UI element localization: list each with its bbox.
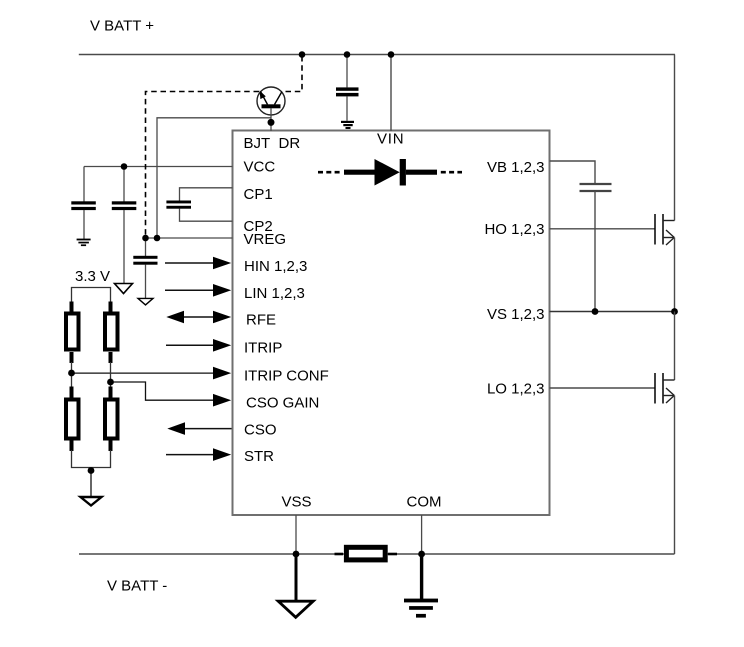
wire between R2 and R4 — [110, 362, 112, 388]
wire + arrow into ITRIP CONF from divider — [72, 367, 232, 380]
svg-text:V BATT -: V BATT - — [107, 578, 167, 595]
wire COM ground stub — [420, 554, 423, 599]
wire right-side vertical from rail to high-side FET drain — [674, 55, 676, 221]
resistor R3 — [66, 400, 79, 439]
resistor R2 — [105, 314, 118, 350]
arrow into LIN 1,2,3 — [165, 284, 231, 297]
wire C2 top lead — [123, 167, 125, 202]
double arrow RFE — [166, 311, 231, 324]
node junction VREG dashed — [142, 235, 149, 242]
capacitor C1 — [71, 201, 96, 210]
svg-text:RFE: RFE — [246, 312, 276, 329]
diode D1 at VIN (dashed left lead) — [318, 171, 341, 174]
svg-text:VSS: VSS — [281, 494, 311, 511]
node junction VSS on rail — [293, 551, 300, 558]
capacitor C5 on VIN rail — [336, 87, 359, 96]
svg-text:VREG: VREG — [244, 231, 287, 248]
resistor R2 bottom lead — [109, 352, 113, 363]
svg-text:CSO GAIN: CSO GAIN — [246, 395, 319, 412]
resistor R2 top lead — [109, 302, 113, 314]
wire C4 bottom lead — [145, 265, 147, 299]
wire VS node to Q3 drain — [674, 312, 676, 381]
node junction VS and bootstrap — [592, 308, 599, 315]
svg-text:ITRIP CONF: ITRIP CONF — [244, 368, 329, 385]
node junction divider ground — [88, 467, 95, 474]
capacitor C2 — [112, 201, 137, 210]
svg-text:COM: COM — [407, 494, 442, 511]
svg-text:3.3 V: 3.3 V — [75, 268, 110, 285]
transistor Q1 BJT — [257, 87, 285, 115]
svg-text:VIN: VIN — [377, 131, 404, 148]
svg-text:CSO: CSO — [244, 422, 277, 439]
svg-text:CP1: CP1 — [244, 186, 273, 203]
wire Q3 source down to bottom rail — [674, 396, 676, 555]
ground earth symbol below C5 — [341, 121, 354, 129]
diode D1 body — [344, 159, 437, 186]
wire C5 top lead from rail — [346, 55, 348, 88]
dashed wire from BJT emitter to VREG node — [146, 92, 260, 237]
ground triangle VSS — [278, 601, 313, 617]
wire VREG pin to left — [146, 237, 233, 239]
wire BJT base to IC BJT DR pin — [270, 108, 272, 131]
arrow into ITRIP — [166, 339, 231, 352]
node junction top rail dashed tap — [299, 51, 306, 58]
dashed wire from top rail to BJT collector — [284, 56, 302, 92]
wire VSS ground stub — [295, 554, 298, 601]
resistor R4 top lead — [109, 387, 113, 400]
node junction divider left tap — [68, 370, 75, 377]
wire C4 top lead — [145, 238, 147, 256]
svg-text:HIN 1,2,3: HIN 1,2,3 — [244, 258, 307, 275]
svg-text:LIN 1,2,3: LIN 1,2,3 — [244, 285, 305, 302]
capacitor C6 bootstrap — [580, 184, 612, 191]
wire bootstrap cap to VS — [594, 191, 596, 312]
wire between R1 and R3 — [71, 362, 73, 388]
ground triangle below divider — [81, 497, 102, 506]
ground triangle below C4 — [138, 298, 153, 305]
resistor R4 — [105, 400, 118, 439]
node junction VCC C2 — [121, 163, 128, 170]
svg-text:BJT DR: BJT DR — [244, 135, 301, 152]
wire to divider ground — [90, 468, 92, 498]
svg-text:VCC: VCC — [244, 159, 276, 176]
resistor R1 — [66, 314, 79, 350]
wire LO pin to Q3 gate — [550, 387, 656, 389]
wire VCC pin to left — [84, 166, 233, 168]
wire VIN pin to top rail — [390, 55, 392, 132]
wire vertical solid from VREG to BJT emitter line — [157, 118, 271, 238]
wire C5 bottom lead — [346, 96, 348, 120]
wire 3.3V supply bracket — [72, 288, 111, 303]
transistor Q2 high-side MOSFET — [655, 214, 675, 245]
arrow out of CSO — [167, 422, 231, 435]
arrow into STR — [166, 448, 231, 461]
wire divider bottom joining — [72, 450, 111, 468]
resistor R4 bottom lead — [109, 438, 113, 451]
ground triangle below C2 — [115, 284, 133, 294]
transistor Q3 low-side MOSFET — [655, 373, 675, 404]
resistor R1 bottom lead — [70, 352, 74, 363]
wire C1 top lead — [83, 167, 85, 202]
svg-text:HO 1,2,3: HO 1,2,3 — [484, 221, 544, 238]
wire VS pin to right — [550, 311, 675, 313]
wire top V BATT + rail — [79, 54, 675, 56]
node junction VREG solid — [154, 235, 161, 242]
op-amp U1 gate-driver IC box — [233, 131, 550, 516]
capacitor C3 between CP1 and CP2 — [166, 201, 191, 209]
node junction COM on rail — [418, 551, 425, 558]
svg-text:V BATT +: V BATT + — [90, 18, 154, 35]
node junction divider right tap — [107, 379, 114, 386]
wire HO pin to Q2 gate — [550, 228, 656, 230]
capacitor C4 on VREG — [133, 256, 157, 265]
wire VSS pin down — [295, 515, 297, 554]
wire VB pin to bootstrap cap — [550, 161, 596, 184]
resistor R3 top lead — [70, 387, 74, 400]
svg-text:STR: STR — [244, 448, 274, 465]
diode D1 dashed right lead — [441, 171, 462, 174]
wire CP2 pin bracket — [180, 209, 233, 222]
svg-text:ITRIP: ITRIP — [244, 340, 282, 357]
arrow into HIN 1,2,3 — [165, 257, 231, 270]
resistor R5 on bottom rail — [335, 547, 398, 560]
resistor R1 top lead — [70, 302, 74, 314]
svg-text:LO 1,2,3: LO 1,2,3 — [487, 381, 545, 398]
node junction VS and half-bridge — [671, 308, 678, 315]
svg-text:VB 1,2,3: VB 1,2,3 — [487, 159, 545, 176]
wire C2 bottom lead — [123, 210, 125, 284]
wire CP1 pin bracket — [180, 188, 233, 201]
wire C1 bottom lead — [83, 210, 85, 239]
wire COM pin down — [421, 515, 423, 554]
node junction top rail C5 — [344, 51, 351, 58]
svg-text:VS 1,2,3: VS 1,2,3 — [487, 306, 545, 323]
node junction BJT base — [268, 119, 275, 126]
ground signal symbol COM — [404, 599, 438, 618]
wire + arrow into CSO GAIN from divider — [111, 382, 232, 407]
node junction top rail VIN — [388, 51, 395, 58]
wire Q2 source down to VS node — [674, 238, 676, 312]
ground earth symbol below C1 — [77, 239, 91, 246]
wire bottom V BATT - rail — [79, 553, 675, 555]
resistor R3 bottom lead — [70, 438, 74, 451]
